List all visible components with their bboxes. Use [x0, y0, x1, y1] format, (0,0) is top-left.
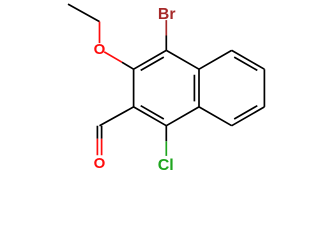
- svg-text:Br: Br: [158, 6, 176, 23]
- svg-text:O: O: [94, 155, 106, 172]
- svg-text:Cl: Cl: [158, 157, 174, 174]
- svg-text:O: O: [94, 41, 106, 58]
